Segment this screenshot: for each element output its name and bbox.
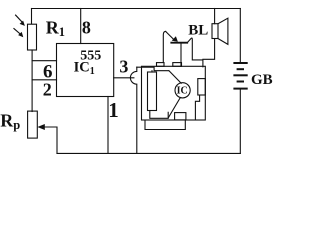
wire module ground vertical with hop [130,67,136,153]
speaker BL bottom lead [203,39,215,60]
terminal bump left on box top [157,63,165,67]
music IC circle [175,83,190,98]
transistor Q1 emitter lead [163,31,165,62]
potentiometer Rp wiper wire [44,127,57,153]
svg-text:8: 8 [82,18,91,38]
svg-text:3: 3 [119,57,128,77]
battery GB cell plates [233,63,247,89]
wire pin 8 [80,9,82,44]
light arrow 2 [14,28,22,35]
wire diagonal to circle bottom [168,98,180,118]
transistor Q1 collector lead [187,38,203,67]
wire bottom-right link inside module [195,95,199,120]
IC1 555 timer body [57,44,114,97]
svg-text:1: 1 [108,98,119,122]
wire top rail [32,8,241,10]
wire pin 1 [107,97,109,154]
svg-text:GB: GB [251,72,273,88]
wire diagonal to IC circle [169,71,181,84]
transistor Q1 base lead [180,43,182,66]
svg-text:IC: IC [177,86,188,97]
wire U loop below module [145,120,185,130]
resistor R1 (photoresistor body) [28,24,37,50]
component small rect right of module [198,79,206,95]
wire resistor top stub [151,71,153,72]
component small rect bottom of module [175,113,186,120]
wire LDR bottom down to pot top [31,50,33,112]
battery GB bottom lead [239,90,241,154]
potentiometer Rp wiper arrowhead [37,124,44,130]
wire module feed from hop top into box [137,67,169,71]
wire bottom rail [57,152,240,154]
wire pin 6 tap [32,60,56,62]
wire pin 3 [114,77,134,79]
wire resistor bottom bracket [150,111,168,119]
terminal bump right on box top [173,63,182,67]
speaker BL horn [218,18,228,44]
resistor inside module [148,72,157,111]
light arrow 1 [15,15,23,23]
transistor Q1 base bar [171,42,187,44]
svg-text:2: 2 [43,80,52,100]
speaker BL body [212,24,218,39]
potentiometer Rp body [28,111,38,138]
module box [142,66,206,120]
svg-text:BL: BL [188,22,208,38]
wire top-left corner down to LDR [31,9,33,24]
transistor Q1 emitter arrowhead [172,36,178,42]
battery GB top lead [239,9,241,63]
speaker BL top lead [214,9,216,24]
wire pin 2 tap [32,79,56,81]
